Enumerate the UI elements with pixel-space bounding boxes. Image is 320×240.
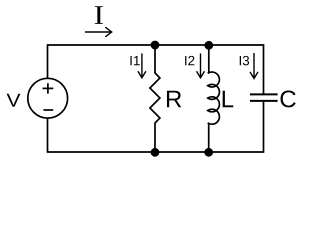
label I3 (branch current through C) — [240, 56, 249, 65]
node dot top at R branch — [151, 41, 160, 50]
label L — [223, 91, 234, 108]
label I (total current) — [95, 6, 103, 24]
label I1 (branch current through R) — [130, 56, 139, 65]
resistor R (zigzag) — [150, 73, 160, 123]
wire left bottom (source to bottom rail) — [47, 118, 49, 153]
inductor L (coil of 4 arcs) — [208, 72, 220, 124]
label R — [167, 91, 181, 108]
label I2 (branch current through L) — [185, 56, 194, 65]
wire L branch top — [208, 45, 210, 74]
capacitor C (two plates) — [250, 94, 278, 101]
wire R branch bottom — [154, 123, 156, 152]
label V (source value) — [7, 94, 21, 107]
wire R branch top — [154, 45, 156, 73]
wire bottom: return conductor — [48, 151, 264, 153]
label C — [281, 90, 296, 107]
arrow for I1 (points down) — [138, 53, 146, 77]
wire top: node between source and branches — [48, 44, 264, 46]
arrow for I3 (points down) — [250, 53, 258, 79]
voltage source V (circle) — [28, 78, 68, 118]
node dot bottom at R branch — [151, 148, 160, 157]
arrow for current I (points right) — [85, 27, 112, 37]
wire L branch bottom — [208, 123, 210, 152]
wire C branch bottom — [263, 102, 265, 153]
wire left top (source to top rail) — [47, 44, 49, 78]
wire C branch top — [263, 44, 265, 94]
node dot top at L branch — [204, 41, 213, 50]
node dot bottom at L branch — [204, 148, 213, 157]
arrow for I2 (points down) — [197, 53, 205, 77]
